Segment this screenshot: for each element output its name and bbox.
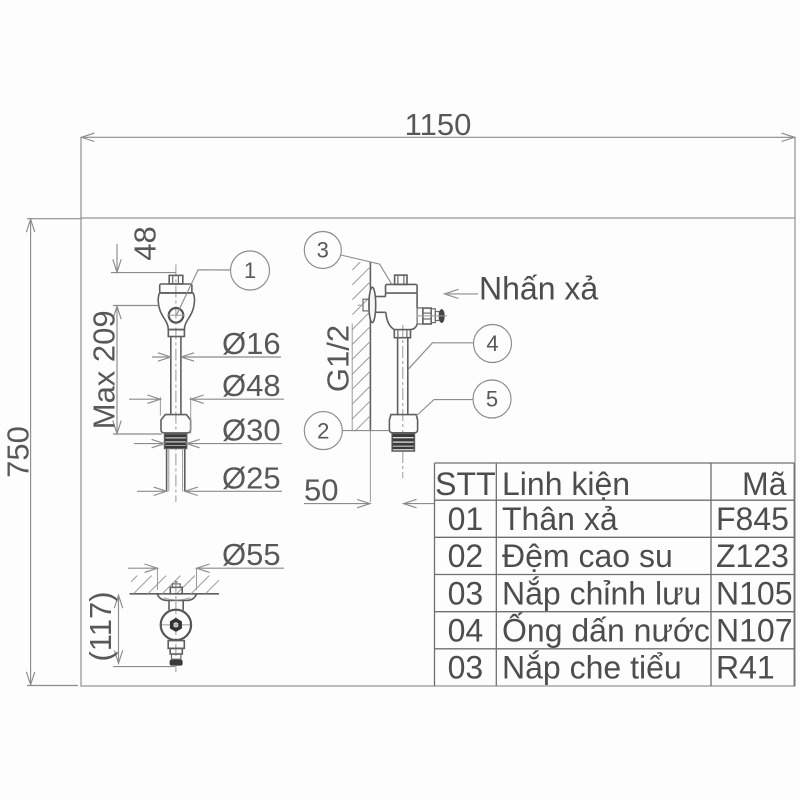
front view valve body (barrel) xyxy=(158,293,194,330)
dimension (117) xyxy=(118,595,120,664)
svg-text:F845: F845 xyxy=(716,501,789,537)
svg-text:R41: R41 xyxy=(716,650,775,686)
balloon 2 leader xyxy=(342,430,389,432)
push button cap xyxy=(439,310,444,323)
svg-text:4: 4 xyxy=(486,331,498,356)
svg-text:03: 03 xyxy=(448,650,484,686)
front view outlet pipe Ø25 xyxy=(166,448,168,491)
wall section line xyxy=(369,262,371,431)
svg-text:G1/2: G1/2 xyxy=(321,325,356,392)
dimension 1150 overall width xyxy=(81,136,795,138)
front view push button xyxy=(169,308,184,323)
svg-text:Ø55: Ø55 xyxy=(222,537,281,572)
ceiling line xyxy=(130,593,220,595)
bottom view nut above ceiling xyxy=(170,587,182,594)
svg-text:Nhấn xả: Nhấn xả xyxy=(479,271,598,307)
dimension 48 (top) xyxy=(111,272,176,274)
svg-text:Đệm cao su: Đệm cao su xyxy=(502,538,673,574)
svg-text:02: 02 xyxy=(448,538,484,574)
bottom view flange Ø55 xyxy=(157,594,196,600)
dimension Ø30 xyxy=(134,443,165,445)
parts table grid xyxy=(434,463,436,686)
side view cover tube xyxy=(397,338,399,415)
svg-text:STT: STT xyxy=(435,466,495,502)
svg-text:3: 3 xyxy=(317,238,329,263)
outer drawing frame xyxy=(81,218,795,686)
svg-text:Linh kiện: Linh kiện xyxy=(502,466,630,502)
bottom view body circle xyxy=(161,610,191,640)
front view top cap flange xyxy=(160,284,192,293)
svg-text:Mã: Mã xyxy=(742,466,787,502)
side view top cap xyxy=(386,284,418,293)
svg-text:Ống dấn nước: Ống dấn nước xyxy=(502,613,710,649)
front view body neck xyxy=(168,330,184,337)
balloon 1 xyxy=(231,251,270,290)
svg-text:01: 01 xyxy=(448,501,484,537)
balloon 4 leader xyxy=(408,343,473,370)
svg-text:Ø48: Ø48 xyxy=(222,368,281,403)
svg-text:2: 2 xyxy=(317,418,329,443)
balloon 5 xyxy=(473,380,511,418)
svg-text:50: 50 xyxy=(304,473,338,508)
front view centerline xyxy=(175,265,177,503)
side view bottom hex nut xyxy=(394,330,410,338)
svg-text:Ø25: Ø25 xyxy=(222,460,281,495)
dimension 750 overall height xyxy=(30,219,32,685)
svg-text:Nắp che tiểu: Nắp che tiểu xyxy=(502,650,682,686)
balloon 3 leader xyxy=(341,255,391,284)
balloon 5 leader xyxy=(416,400,473,416)
svg-text:Max 209: Max 209 xyxy=(87,310,122,429)
svg-text:04: 04 xyxy=(448,613,484,649)
side view centerline xyxy=(402,325,404,478)
svg-text:750: 750 xyxy=(1,426,36,478)
dimension Max 209 xyxy=(113,305,158,307)
svg-text:48: 48 xyxy=(128,226,163,260)
front view bell fitting Ø48 xyxy=(161,415,191,433)
side view bell fitting xyxy=(389,415,417,433)
side view top hex nut xyxy=(395,275,407,284)
push button stem xyxy=(435,312,439,321)
svg-text:Ø30: Ø30 xyxy=(222,413,281,448)
bottom view stem collar xyxy=(168,641,184,649)
press arrow xyxy=(448,293,479,295)
dimension Ø48 xyxy=(159,397,161,416)
front view top hex nut xyxy=(169,275,183,284)
dimension Ø25 xyxy=(137,490,167,492)
svg-text:N107: N107 xyxy=(716,613,793,649)
svg-text:(117): (117) xyxy=(83,591,118,661)
push button boss xyxy=(417,308,423,324)
svg-text:N105: N105 xyxy=(716,575,793,611)
svg-text:1150: 1150 xyxy=(405,107,472,142)
balloon 4 xyxy=(474,325,512,363)
svg-text:1: 1 xyxy=(244,258,256,283)
side view threaded connector xyxy=(392,434,414,451)
svg-text:Nắp chỉnh lưu: Nắp chỉnh lưu xyxy=(502,575,701,611)
svg-text:03: 03 xyxy=(448,575,484,611)
dimension Ø16 xyxy=(152,356,171,358)
wall flange (trumpet mouth) xyxy=(369,287,376,322)
balloon 2 xyxy=(304,412,342,450)
front view supply tube Ø16 xyxy=(170,337,172,415)
svg-text:Thân xả: Thân xả xyxy=(502,501,618,537)
bottom view centerline xyxy=(175,581,177,672)
balloon 1 leader xyxy=(177,270,231,315)
push button hex nut xyxy=(423,308,431,324)
bottom view inner hex nut xyxy=(172,620,180,630)
svg-text:Z123: Z123 xyxy=(716,538,789,574)
svg-text:5: 5 xyxy=(486,387,498,412)
push button axis xyxy=(417,315,447,317)
push button washer xyxy=(431,309,435,323)
side view inlet cylinder xyxy=(375,296,385,298)
bottom view stem tip dark band xyxy=(170,660,183,666)
front view threaded connector Ø30 xyxy=(165,434,187,448)
bottom view neck xyxy=(168,601,170,611)
side view valve body xyxy=(386,293,418,330)
balloon 3 xyxy=(304,232,341,269)
pipe stub behind wall xyxy=(363,299,369,311)
svg-text:Ø16: Ø16 xyxy=(222,326,281,361)
